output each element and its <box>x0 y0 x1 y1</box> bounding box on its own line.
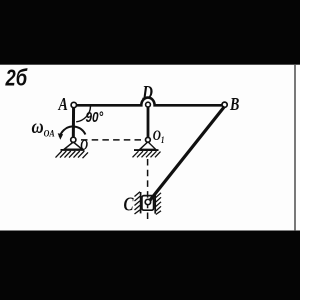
slider block C <box>142 196 154 211</box>
joint A <box>71 102 76 107</box>
slider guide right wall with hatching <box>155 193 161 215</box>
right page border line <box>294 64 296 231</box>
svg-text:90°: 90° <box>86 109 104 126</box>
fixed support at O1 <box>133 142 161 158</box>
dashed vertical construction line O1-C <box>147 159 149 222</box>
omega_OA rotation arc <box>60 126 86 137</box>
slider guide left wall with hatching <box>135 192 141 214</box>
90 degree angle arc <box>76 106 90 122</box>
connecting rod BC (diagonal) <box>149 107 225 202</box>
svg-text:2б: 2б <box>5 66 28 91</box>
top black band <box>0 0 300 65</box>
pin joint C <box>145 199 150 204</box>
joint D <box>146 102 151 107</box>
joint B <box>222 102 227 107</box>
svg-text:D: D <box>141 82 153 103</box>
omega arc arrowhead <box>58 133 63 140</box>
dashed horizontal construction line O-O1 <box>81 139 144 141</box>
link DO1 (vertical) <box>147 107 150 138</box>
svg-text:O: O <box>80 136 88 153</box>
pivot joint O <box>71 137 76 142</box>
bar ADB (horizontal with bump over D) <box>74 98 225 106</box>
crank link OA (vertical) <box>72 105 75 139</box>
bottom black band <box>0 231 300 300</box>
svg-text:C: C <box>124 192 134 215</box>
fixed support at O <box>56 142 89 158</box>
svg-text:B: B <box>229 96 239 115</box>
svg-text:A: A <box>58 96 68 115</box>
pivot joint O1 <box>146 137 151 142</box>
